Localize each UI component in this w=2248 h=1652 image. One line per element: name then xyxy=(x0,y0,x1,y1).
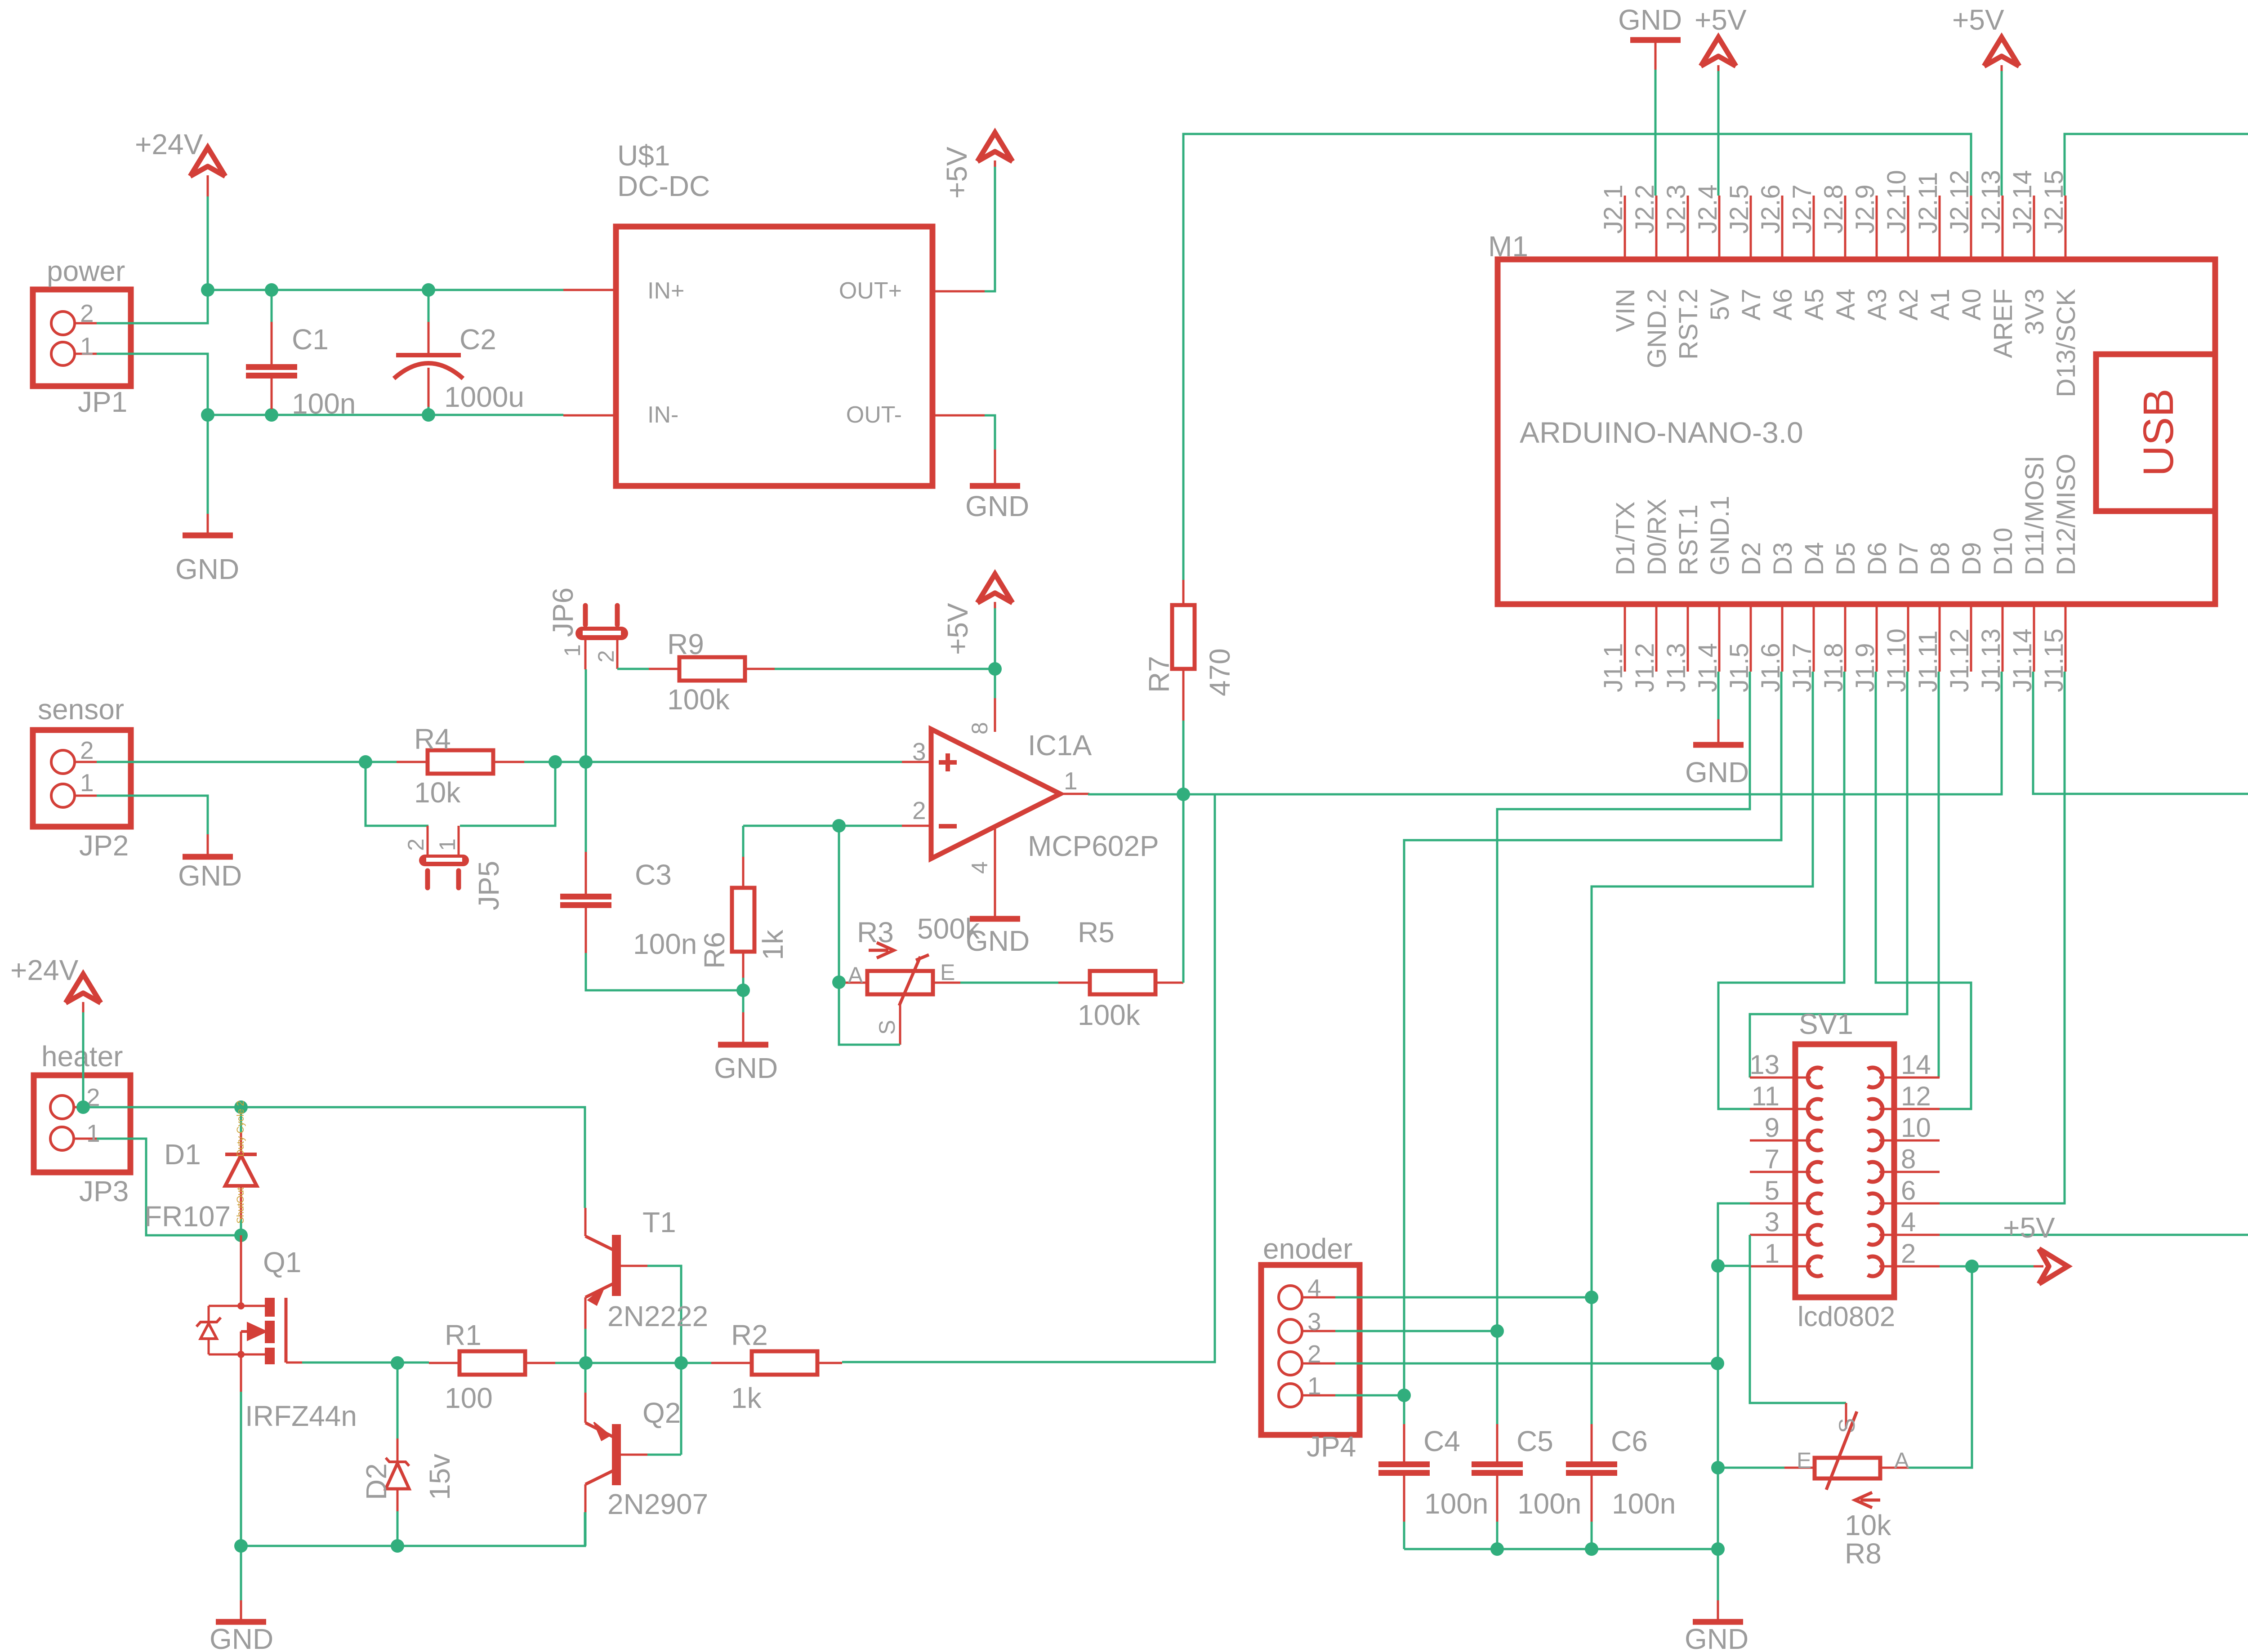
JP3 pin1 lead xyxy=(74,1138,97,1140)
svg-text:J2.12: J2.12 xyxy=(1945,170,1974,234)
junction emitters/R1 xyxy=(579,1356,593,1370)
svg-text:lcd0802: lcd0802 xyxy=(1798,1301,1895,1332)
M1 bottom pin stub J1.10 xyxy=(1907,604,1909,672)
D2 cathode bar xyxy=(386,1463,409,1489)
wire Q2 base to riser xyxy=(647,1454,681,1456)
M1 top pin stub J2.1 xyxy=(1624,196,1626,259)
wire opamp output to J1.13 (D10) xyxy=(1088,672,2002,794)
wire gate to R1 xyxy=(302,1362,429,1364)
svg-text:D6: D6 xyxy=(1863,542,1892,575)
D2 triangle xyxy=(397,1363,399,1438)
wire R7 top to J2.12 (A0) xyxy=(1183,134,1971,580)
svg-text:9: 9 xyxy=(1765,1113,1780,1143)
JP3 pin1 circle xyxy=(50,1127,74,1150)
svg-text:A3: A3 xyxy=(1863,289,1892,321)
M1 top pin stub J2.10 xyxy=(1907,196,1909,259)
wire J1.15 (D12) to SV1 pin 6 xyxy=(1940,672,2065,1203)
SV1 pin 7 stub xyxy=(1750,1171,1811,1173)
wire emitters to bases node xyxy=(586,1362,681,1364)
+24V supply arrow (top left) xyxy=(190,147,225,176)
+24V arrow red stem xyxy=(207,175,209,196)
svg-text:JP6: JP6 xyxy=(547,588,579,637)
M1 bottom pin stub J1.1 xyxy=(1624,604,1626,672)
svg-text:4: 4 xyxy=(1307,1274,1321,1302)
svg-text:D3: D3 xyxy=(1768,542,1798,575)
svg-text:R8: R8 xyxy=(1845,1537,1882,1570)
svg-text:DC-DC: DC-DC xyxy=(617,170,710,202)
+5V supply arrow (SV1) xyxy=(2039,1249,2068,1284)
svg-text:S: S xyxy=(874,1020,900,1035)
svg-text:12: 12 xyxy=(1901,1081,1931,1111)
svg-text:JP3: JP3 xyxy=(79,1175,129,1207)
M1 top pin stub J2.13 xyxy=(2002,196,2004,259)
svg-text:JP1: JP1 xyxy=(78,386,127,418)
svg-text:A7: A7 xyxy=(1737,289,1766,321)
svg-text:1k: 1k xyxy=(731,1382,762,1414)
wire OUT+ to +5V xyxy=(985,165,995,291)
svg-text:GND: GND xyxy=(210,1623,273,1652)
sensor connector JP2 xyxy=(33,730,131,827)
wire R5 right up to output node xyxy=(1182,794,1185,983)
svg-text:2: 2 xyxy=(1307,1340,1321,1368)
JP2 pin1 lead xyxy=(75,795,97,797)
svg-text:GND: GND xyxy=(1685,756,1749,788)
junction C2 top xyxy=(422,283,435,297)
wire J1.8 (D5) to SV1 pin11 xyxy=(1718,672,1844,1109)
svg-text:D10: D10 xyxy=(1989,528,2018,575)
svg-text:1: 1 xyxy=(80,332,94,360)
SV1 pin 12 stub xyxy=(1879,1108,1940,1110)
svg-text:D2: D2 xyxy=(1737,542,1766,575)
heater gnd rail xyxy=(241,1512,585,1546)
SV1 pin 2 stub xyxy=(1879,1265,1940,1268)
svg-text:IN-: IN- xyxy=(647,402,678,428)
DC-DC converter U$1 xyxy=(616,227,932,486)
wire -in xyxy=(743,825,902,827)
wire SV1 pin3 to R8 wiper xyxy=(1750,1235,1846,1403)
svg-text:J2.9: J2.9 xyxy=(1851,184,1880,234)
JP4 pin 2 circle xyxy=(1279,1352,1302,1375)
R8 pin E lead xyxy=(1784,1467,1815,1469)
JP2 pin2 circle xyxy=(51,750,75,774)
ground heater xyxy=(216,1619,266,1625)
wire R3 E to R5 xyxy=(960,982,1058,984)
T1 emitter lead xyxy=(584,1297,587,1329)
M1 bottom pin stub J1.14 xyxy=(2033,604,2035,672)
svg-text:A6: A6 xyxy=(1768,289,1798,321)
M1 bottom pin stub J1.9 xyxy=(1876,604,1878,672)
svg-text:A5: A5 xyxy=(1800,289,1829,321)
svg-text:+5V: +5V xyxy=(941,603,974,655)
wire JP6.1 down to +in node xyxy=(585,669,587,762)
wire JP1.2 to +24V node xyxy=(97,290,208,323)
svg-text:1: 1 xyxy=(435,838,460,851)
resistor R9 xyxy=(679,657,745,681)
junction +5V/R8 A xyxy=(1965,1260,1979,1273)
svg-text:C4: C4 xyxy=(1423,1425,1460,1457)
wire J1.7 (D4) to JP4 pin4 / C6 xyxy=(1592,672,1813,1424)
resistor R4 xyxy=(428,750,493,774)
svg-text:100k: 100k xyxy=(1078,999,1141,1031)
svg-text:GND.1: GND.1 xyxy=(1705,496,1735,575)
resistor R7 xyxy=(1172,605,1195,669)
wire T1 base / Q2 base riser xyxy=(647,1266,681,1455)
USB connector box xyxy=(2096,354,2215,511)
opamp pin1 stub xyxy=(1060,793,1089,795)
wire JP1.1 down xyxy=(97,354,208,415)
Q2 collector lead xyxy=(584,1484,587,1512)
svg-text:500k: 500k xyxy=(917,913,980,945)
svg-text:11: 11 xyxy=(1752,1081,1780,1111)
svg-text:3: 3 xyxy=(912,738,926,766)
svg-text:Q2: Q2 xyxy=(642,1397,681,1429)
svg-text:A4: A4 xyxy=(1831,289,1860,321)
svg-text:SV1: SV1 xyxy=(1799,1008,1853,1040)
svg-text:+5V: +5V xyxy=(2003,1211,2055,1244)
JP2 pin1 circle xyxy=(51,784,75,807)
svg-text:OUT-: OUT- xyxy=(846,402,902,428)
svg-text:6: 6 xyxy=(1901,1176,1916,1206)
R3 wiper slash xyxy=(869,943,894,958)
gnd rail bottom xyxy=(1404,1548,1718,1550)
svg-text:1: 1 xyxy=(86,1119,100,1147)
U$1 IN+ pin stub xyxy=(563,289,616,291)
junction +24V/JP1.2 xyxy=(201,283,214,297)
svg-text:T1: T1 xyxy=(642,1206,676,1238)
JP5 pad stub b xyxy=(456,871,461,888)
transistor T1 2N2222 (NPN) xyxy=(612,1235,621,1296)
svg-text:J1.12: J1.12 xyxy=(1945,628,1974,692)
opamp pin8 stub xyxy=(994,698,996,732)
opamp pin2 stub xyxy=(902,825,931,827)
transistor Q2 2N2907 (PNP) xyxy=(612,1424,621,1485)
svg-text:2: 2 xyxy=(912,797,926,824)
junction D1 bottom / Q1 drain xyxy=(234,1229,248,1242)
svg-text:JP4: JP4 xyxy=(1307,1430,1356,1463)
capacitor C2 (polarized) xyxy=(396,353,461,357)
gnd stem red xyxy=(207,514,209,534)
junction gnd rail left xyxy=(234,1539,248,1553)
M1 top pin stub J2.11 xyxy=(1939,196,1941,259)
svg-text:GND.2: GND.2 xyxy=(1642,289,1672,368)
potentiometer R3 500k xyxy=(867,971,933,994)
M1 bottom pin stub J1.2 xyxy=(1655,604,1658,672)
R3 pin E lead xyxy=(933,982,960,984)
op-amp IC1A MCP602P xyxy=(931,729,1060,859)
svg-text:IC1A: IC1A xyxy=(1028,729,1092,761)
SV1 pin 13 stub xyxy=(1750,1077,1811,1079)
T1 collector lead xyxy=(584,1208,587,1236)
wire JP4.1 to D3 column xyxy=(1335,1394,1404,1397)
svg-text:J2.10: J2.10 xyxy=(1882,170,1911,234)
svg-text:D1: D1 xyxy=(164,1138,201,1171)
svg-text:100n: 100n xyxy=(1612,1487,1676,1520)
svg-text:2: 2 xyxy=(80,736,94,764)
Q2 emitter diagonal xyxy=(585,1423,613,1437)
R3 pin S lead xyxy=(899,1002,901,1045)
JP4 pin 1 lead xyxy=(1302,1394,1335,1397)
junction output node xyxy=(1177,788,1190,801)
junction D1 top xyxy=(234,1100,248,1114)
Q1 source connect xyxy=(241,1354,265,1356)
SV1 pin 7 pad xyxy=(1808,1162,1823,1182)
M1 bottom pin stub J1.13 xyxy=(2002,604,2004,672)
junction -in xyxy=(832,819,846,833)
wire J1.6 (D3) to JP4 pin1 / C4 xyxy=(1404,672,1781,1424)
wire J2.13 to +5V xyxy=(2001,71,2003,196)
svg-text:GND: GND xyxy=(1618,4,1682,36)
JP1 pin 1 circle xyxy=(51,342,75,365)
zener cathode bar xyxy=(201,1323,217,1339)
svg-text:100n: 100n xyxy=(292,387,356,420)
junction C1 bottom xyxy=(265,408,278,422)
svg-text:D0/RX: D0/RX xyxy=(1642,499,1672,575)
opamp pin3 stub xyxy=(902,761,931,763)
wire +5V to pin8 xyxy=(994,669,996,698)
junction gnd rail xyxy=(1711,1542,1725,1556)
svg-text:15v: 15v xyxy=(424,1454,456,1500)
svg-text:2N2907: 2N2907 xyxy=(607,1488,708,1520)
wire JP6.2 to R9 xyxy=(617,668,649,670)
M1 top pin stub J2.15 xyxy=(2065,196,2067,259)
wire R9 to +5V node xyxy=(775,668,995,670)
JP6 pin2 lead xyxy=(616,640,619,669)
wire R6 gnd stem xyxy=(742,990,745,1012)
M1 top pin stub J2.8 xyxy=(1844,196,1847,259)
svg-text:A: A xyxy=(848,962,863,988)
svg-text:sensor: sensor xyxy=(38,693,124,726)
wire OUT- to GND xyxy=(985,415,995,450)
svg-text:+5V: +5V xyxy=(1695,4,1747,36)
R8 pin S lead xyxy=(1845,1403,1847,1429)
SV1 pin 2 pad xyxy=(1868,1256,1882,1276)
Q1 body zener diode xyxy=(209,1305,241,1307)
JP4 pin 4 circle xyxy=(1279,1286,1302,1309)
svg-text:C6: C6 xyxy=(1611,1425,1648,1457)
wire gnd stem heater xyxy=(240,1546,242,1600)
wire +5V stem opamp xyxy=(994,607,996,669)
wire J1.4 to gnd xyxy=(1717,672,1720,719)
wire opamp -in to R3 S xyxy=(839,826,900,1045)
zener triangle xyxy=(208,1339,210,1354)
M1 top pin stub J2.3 xyxy=(1687,196,1689,259)
capacitor C3 xyxy=(560,894,611,899)
junction C6 bottom xyxy=(1585,1542,1598,1556)
svg-text:R9: R9 xyxy=(667,628,704,660)
svg-text:IRFZ44n: IRFZ44n xyxy=(245,1400,357,1432)
Q1 drain lead xyxy=(240,1235,242,1306)
wire gnd stem bottom xyxy=(1717,1549,1719,1600)
junction D2 bottom xyxy=(391,1539,404,1553)
Q1 gate line xyxy=(285,1298,288,1363)
wire JP2.2 to R4 xyxy=(97,761,397,763)
junction R8 E xyxy=(1711,1461,1725,1474)
svg-text:D2: D2 xyxy=(360,1463,393,1500)
junction R4 left xyxy=(359,755,372,769)
Q1 channel bar mid xyxy=(265,1348,275,1364)
opamp pin4 stub xyxy=(994,827,996,918)
svg-text:GND: GND xyxy=(965,490,1029,522)
Q2 base lead xyxy=(621,1454,647,1456)
ground bottom xyxy=(1693,1619,1743,1625)
M1 top pin stub J2.12 xyxy=(1970,196,1972,259)
junction +5V node xyxy=(988,662,1002,676)
svg-text:FR107: FR107 xyxy=(144,1200,231,1233)
SV1 pin 8 stub xyxy=(1879,1171,1940,1173)
ground under JP2 xyxy=(183,854,233,860)
M1 bottom pin stub J1.15 xyxy=(2065,604,2067,672)
wire J1.11 (D8) to SV1 pin14 xyxy=(1939,672,1940,1078)
D1 cathode bar xyxy=(225,1153,257,1156)
SV1 pin 9 stub xyxy=(1750,1140,1811,1142)
wire JP3.1 to D1 bottom node xyxy=(97,1139,241,1235)
ground under R6 xyxy=(718,1042,768,1048)
svg-text:470: 470 xyxy=(1204,648,1236,696)
svg-text:RST.1: RST.1 xyxy=(1674,504,1703,575)
potentiometer R8 10k xyxy=(1815,1458,1880,1478)
SV1 pin 6 pad xyxy=(1868,1193,1882,1213)
svg-text:C2: C2 xyxy=(459,323,496,356)
junction JP1.1/gnd xyxy=(201,408,214,422)
JP6 pin1 lead xyxy=(584,640,587,669)
JP5 pin1 lead xyxy=(458,826,460,855)
plus sign v xyxy=(946,753,950,771)
M1 top pin stub J2.9 xyxy=(1876,196,1878,259)
JP1 pin1 lead xyxy=(75,353,97,355)
svg-text:D11/MOSI: D11/MOSI xyxy=(2020,456,2049,575)
svg-text:U$1: U$1 xyxy=(617,139,670,172)
JP2 pin2 lead xyxy=(75,761,97,763)
R3 pin A lead xyxy=(842,982,867,984)
T1 base lead xyxy=(621,1265,647,1267)
wire J1.14 (D11) to buzzer + xyxy=(2033,668,2248,794)
wire GND rail bottom xyxy=(208,414,563,416)
wire R8 A to +5V node xyxy=(1909,1266,1972,1468)
wire Q1 source to gnd rail xyxy=(240,1392,242,1546)
svg-text:14: 14 xyxy=(1901,1050,1931,1080)
M1 bottom pin stub J1.11 xyxy=(1939,604,1941,672)
svg-text:5V: 5V xyxy=(1705,289,1735,321)
U$1 OUT+ pin stub xyxy=(932,290,985,293)
svg-text:D8: D8 xyxy=(1926,542,1955,575)
ground under U$1 xyxy=(970,483,1020,489)
wire bypass around R4 via JP5 (right) xyxy=(460,762,555,826)
R7 top lead xyxy=(1182,580,1185,605)
svg-text:13: 13 xyxy=(1749,1050,1780,1080)
svg-text:IN+: IN+ xyxy=(647,278,684,304)
Q1 body arrow tail v xyxy=(240,1331,242,1354)
svg-text:USB: USB xyxy=(2135,388,2182,476)
JP3 pin2 lead xyxy=(74,1106,83,1109)
SV1 pin 3 pad xyxy=(1808,1225,1823,1245)
U$1 IN- pin stub xyxy=(563,414,616,417)
svg-text:J2.8: J2.8 xyxy=(1819,184,1848,234)
svg-text:JP2: JP2 xyxy=(79,829,129,862)
SV1 pin 5 stub xyxy=(1750,1202,1811,1205)
M1 bottom pin stub J1.7 xyxy=(1813,604,1815,672)
junction R6 bottom xyxy=(736,984,750,997)
svg-text:R4: R4 xyxy=(414,723,451,755)
SV1 pin 14 pad xyxy=(1868,1068,1882,1087)
JP4 pin 1 circle xyxy=(1279,1384,1302,1407)
svg-text:GND: GND xyxy=(714,1052,778,1084)
wire +24V stem heater xyxy=(82,1012,85,1107)
JP4 pin 4 lead xyxy=(1302,1296,1335,1299)
svg-text:8: 8 xyxy=(967,722,992,735)
svg-text:+24V: +24V xyxy=(10,954,79,986)
SV1 pin 1 stub xyxy=(1750,1265,1811,1268)
SV1 pin 13 pad xyxy=(1808,1068,1823,1087)
SV1 pin 10 pad xyxy=(1868,1131,1882,1150)
svg-text:VIN: VIN xyxy=(1611,289,1640,332)
M1 top pin stub J2.7 xyxy=(1813,196,1815,259)
svg-text:3V3: 3V3 xyxy=(2020,289,2049,335)
svg-text:D7: D7 xyxy=(1894,542,1923,575)
SV1 pin 11 stub xyxy=(1750,1108,1811,1110)
svg-text:D4: D4 xyxy=(1800,542,1829,575)
svg-text:100k: 100k xyxy=(667,683,730,716)
junction SV1 pin1 gnd xyxy=(1711,1259,1725,1273)
svg-text:R6: R6 xyxy=(698,932,731,969)
svg-text:ARDUINO-NANO-3.0: ARDUINO-NANO-3.0 xyxy=(1520,416,1803,449)
wire +24V stem xyxy=(207,195,209,290)
svg-text:100: 100 xyxy=(445,1382,493,1414)
T1 emitter diagonal xyxy=(585,1284,613,1297)
Q1 drain joint dot xyxy=(237,1302,245,1309)
JP4 pin 3 lead xyxy=(1302,1330,1335,1332)
svg-text:10: 10 xyxy=(1901,1113,1931,1143)
svg-text:J2.3: J2.3 xyxy=(1662,184,1691,234)
M1 bottom pin stub J1.3 xyxy=(1687,604,1689,672)
svg-text:1: 1 xyxy=(560,644,585,657)
svg-text:enoder: enoder xyxy=(1263,1233,1352,1265)
svg-text:2N2222: 2N2222 xyxy=(607,1300,708,1332)
Arduino Nano module M1 xyxy=(1498,259,2215,604)
junction D2 top xyxy=(391,1356,404,1370)
wire SV1 pin5/pin1 to gnd rail xyxy=(1718,1203,1750,1549)
svg-text:C5: C5 xyxy=(1517,1425,1553,1457)
SV1 pin 8 pad xyxy=(1868,1162,1882,1182)
OUT- gnd stem red xyxy=(994,450,996,485)
svg-text:A0: A0 xyxy=(1957,289,1986,321)
wire J1.9 (D6) to SV1 pin12 xyxy=(1876,672,1971,1109)
wire JP4.3 to D2 column xyxy=(1335,1330,1497,1332)
svg-text:C3: C3 xyxy=(635,859,672,891)
wire +24V rail to T1 collector xyxy=(83,1107,585,1208)
U$1 OUT- pin stub xyxy=(932,414,985,417)
svg-text:R3: R3 xyxy=(857,916,894,948)
SV1 pin 5 pad xyxy=(1808,1193,1823,1213)
svg-text:D13/SCK: D13/SCK xyxy=(2052,289,2081,397)
Q2 emitter lead xyxy=(584,1393,587,1423)
svg-text:8: 8 xyxy=(1901,1144,1916,1174)
svg-text:J1.13: J1.13 xyxy=(1976,628,2006,692)
svg-text:2: 2 xyxy=(403,838,428,851)
svg-text:3: 3 xyxy=(1307,1308,1321,1336)
wire R1 to emitters xyxy=(555,1362,586,1364)
ground under JP1 xyxy=(183,533,233,539)
junction R3 A xyxy=(832,975,846,989)
svg-text:+24V: +24V xyxy=(135,128,203,160)
junction bases/R2 xyxy=(674,1356,688,1370)
Q2 collector diagonal xyxy=(585,1471,613,1484)
svg-text:power: power xyxy=(47,255,125,287)
minus sign xyxy=(939,824,957,828)
SV1 pin 4 stub xyxy=(1879,1234,1940,1236)
svg-text:D1/TX: D1/TX xyxy=(1611,502,1640,575)
svg-text:Q1: Q1 xyxy=(263,1246,301,1278)
SV1 pin 11 pad xyxy=(1808,1099,1823,1119)
